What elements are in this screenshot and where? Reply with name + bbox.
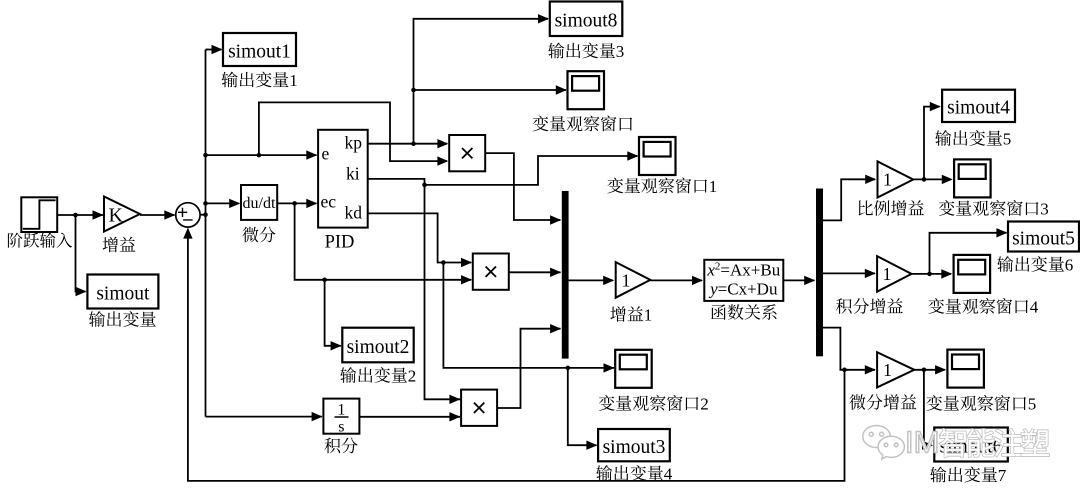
- simout3 block: [598, 429, 670, 461]
- wire branch to simout2: [325, 280, 341, 346]
- label output variable4: [596, 465, 673, 484]
- arrowhead into scope window1: [627, 151, 638, 160]
- junction simout2 branch: [322, 278, 327, 283]
- label variable window: [533, 116, 633, 132]
- label derivative gain: [850, 394, 917, 410]
- junction on step output: [73, 213, 78, 218]
- label gain: [103, 237, 136, 253]
- function block equations: [706, 261, 780, 299]
- proportional gain triangle: [878, 161, 914, 197]
- label integral: [325, 438, 358, 454]
- label variable window1: [607, 177, 717, 196]
- feedback wire to sum minus input: [188, 229, 845, 481]
- junction scope0 branch: [411, 88, 416, 93]
- arrowhead into du/dt: [229, 199, 240, 208]
- scope variable window1: [639, 137, 676, 175]
- arrowhead into I gain: [865, 269, 876, 278]
- wire mux output to gain1: [569, 279, 613, 281]
- arrowhead into multiply3 input2: [449, 412, 460, 421]
- wire e-line to PID input e: [206, 154, 317, 156]
- arrowhead into mux input1: [550, 215, 561, 224]
- junction simout3 branch: [566, 366, 571, 371]
- wire branch down to simout3: [568, 368, 597, 445]
- arrowhead into simout2: [331, 341, 342, 350]
- scope variable window4: [954, 255, 991, 293]
- svg-text:ec: ec: [321, 192, 337, 212]
- arrowhead into multiply2 input2: [461, 275, 472, 284]
- label gain1: [610, 306, 652, 325]
- arrowhead into scope window5: [935, 365, 946, 374]
- svg-text:1: 1: [644, 306, 653, 325]
- scope variable window: [568, 71, 605, 109]
- wire to integrator 1/s: [206, 416, 322, 418]
- arrowhead into multiply1 input1: [437, 139, 448, 148]
- arrowhead into simout6: [922, 441, 933, 450]
- sum junction circle: [176, 203, 200, 227]
- wire branch up to simout5: [930, 233, 1007, 274]
- arrowhead into sum: [164, 210, 175, 219]
- svg-text:1: 1: [709, 177, 718, 196]
- svg-text:1: 1: [337, 402, 345, 419]
- svg-text:simout1: simout1: [228, 41, 291, 62]
- wire multiply2 output to mux input2: [509, 271, 561, 273]
- wire multiply3 output to mux input3: [497, 329, 560, 408]
- wire demux out2 to I gain: [823, 272, 875, 274]
- wire PID ki to scope window1: [368, 156, 638, 185]
- arrowhead into multiply2 input1: [461, 258, 472, 267]
- arrowhead into simout5: [996, 228, 1007, 237]
- arrowhead up into sum: [183, 228, 192, 239]
- simout6 block: [934, 428, 1008, 462]
- arrowhead into mux input3: [550, 324, 561, 333]
- simout2 block: [342, 328, 413, 363]
- svg-text:e: e: [322, 144, 330, 164]
- wire branch down to simout6: [924, 370, 932, 445]
- label variable window2: [599, 395, 709, 414]
- label variable window5: [926, 395, 1036, 414]
- arrowhead into scope window: [556, 85, 567, 94]
- wire du/dt to PID input ec: [277, 202, 316, 204]
- wire gain1 to function block: [650, 279, 702, 281]
- label output variable2: [340, 367, 416, 386]
- label output variable7: [930, 466, 1007, 485]
- simout1 block: [223, 33, 296, 66]
- PID port labels: [321, 133, 363, 223]
- wire kp branch up to simout8: [414, 19, 549, 144]
- svg-text:y=Cx+Du: y=Cx+Du: [708, 280, 778, 299]
- junction feedback branch: [842, 368, 847, 373]
- svg-text:6: 6: [1065, 256, 1074, 275]
- svg-text:PID: PID: [325, 233, 355, 253]
- junction kp branch up: [411, 141, 416, 146]
- derivative du/dt block: [241, 185, 277, 220]
- simout4 block: [942, 90, 1015, 122]
- svg-text:7: 7: [998, 466, 1007, 485]
- label output variable1: [222, 71, 298, 90]
- wire gain K to sum: [140, 214, 175, 216]
- wire demux out3 to D gain: [823, 328, 875, 370]
- arrowhead into PID e: [306, 150, 317, 159]
- junction simout6 branch: [922, 368, 927, 373]
- arrowhead into scope window3: [942, 175, 953, 184]
- label proportional gain: [859, 200, 924, 216]
- arrowhead into scope window4: [941, 269, 952, 278]
- wire D gain to scope window5: [914, 369, 945, 371]
- wire sum output to node: [200, 214, 205, 216]
- integrator 1/s block: [323, 399, 359, 434]
- arrowhead into mux input2: [550, 268, 561, 277]
- wire e branch up-over to multiply1 input2: [259, 102, 447, 161]
- wire to du/dt: [206, 202, 240, 204]
- wire function block to demux: [783, 279, 814, 281]
- label step input: [8, 233, 72, 248]
- multiply block 3: [461, 390, 497, 426]
- svg-text:s: s: [338, 419, 344, 436]
- wire kd branch down to scope window2: [443, 263, 614, 368]
- label integral gain: [836, 298, 903, 314]
- integral gain triangle: [877, 256, 911, 292]
- svg-text:2: 2: [700, 395, 709, 414]
- step icon: [23, 200, 56, 229]
- arrowhead into simout3: [586, 441, 597, 450]
- step block: [21, 197, 57, 232]
- svg-text:simout5: simout5: [1012, 228, 1075, 249]
- svg-text:4: 4: [664, 465, 673, 484]
- svg-text:du/dt: du/dt: [243, 195, 276, 212]
- label variable window3: [939, 200, 1049, 219]
- demux bar: [816, 189, 823, 357]
- svg-text:IM: IM: [905, 425, 939, 460]
- wire ki branch down to multiply3 input1: [425, 185, 461, 399]
- PID fuzzy controller block: [318, 130, 368, 228]
- scope variable window3: [954, 159, 991, 197]
- integrator 1/s text: [335, 402, 349, 436]
- scope variable window2: [615, 350, 652, 388]
- svg-text:2: 2: [408, 367, 417, 386]
- wire demux out1 to P gain: [823, 179, 875, 220]
- label output variable: [89, 311, 156, 327]
- arrowhead into gain K: [93, 210, 104, 219]
- arrowhead into simout1: [212, 45, 223, 54]
- function block: [704, 260, 783, 301]
- junction kd branch down: [441, 260, 446, 265]
- derivative gain triangle: [877, 352, 914, 387]
- wire integrator output to multiply3 input2: [359, 416, 460, 418]
- svg-text:K: K: [109, 205, 124, 227]
- label derivative: [243, 227, 276, 243]
- svg-text:1: 1: [883, 264, 892, 284]
- junction du/dt tap: [203, 201, 208, 206]
- wire multiply1 output to mux input1: [485, 153, 560, 220]
- wire ec branch down to multiply2 input2: [295, 203, 472, 279]
- svg-text:simout: simout: [96, 283, 150, 304]
- svg-text:simout4: simout4: [947, 98, 1010, 119]
- mux bar: [562, 191, 569, 359]
- svg-text:3: 3: [1040, 200, 1049, 219]
- label output variable3: [548, 42, 624, 61]
- arrowhead into function block: [692, 276, 703, 285]
- svg-text:3: 3: [616, 42, 625, 61]
- gain K: [104, 197, 140, 232]
- svg-text:4: 4: [1030, 298, 1039, 317]
- arrowhead into simout: [76, 287, 87, 296]
- svg-text:simout3: simout3: [603, 437, 666, 458]
- arrowhead into P gain: [865, 175, 876, 184]
- svg-text:ki: ki: [346, 164, 360, 184]
- svg-text:1: 1: [883, 170, 892, 190]
- junction e branch: [257, 153, 262, 158]
- arrowhead into simout8: [538, 14, 549, 23]
- multiply block 2: [473, 254, 509, 290]
- junction ki branch down: [422, 183, 427, 188]
- wire main vertical trunk x205: [205, 50, 207, 417]
- junction e-line tap: [203, 153, 208, 158]
- gain1 triangle: [616, 262, 651, 298]
- label variable window4: [928, 298, 1038, 317]
- junction simout5 branch: [927, 272, 932, 277]
- wire branch up to simout4: [924, 107, 940, 180]
- arrowhead into PID ec: [306, 199, 317, 208]
- wire PID kd to multiply2 input1: [368, 213, 472, 262]
- simout block: [87, 275, 158, 309]
- arrowhead into D gain: [865, 365, 876, 374]
- label function relation: [711, 304, 776, 320]
- simout8 block: [550, 2, 623, 37]
- wire PID kp to multiply1 input1: [368, 143, 447, 145]
- watermark characters: [940, 429, 1049, 457]
- svg-text:kp: kp: [345, 133, 363, 153]
- arrowhead into integrator: [312, 412, 323, 421]
- svg-text:simout8: simout8: [555, 11, 618, 32]
- arrowhead into gain1: [603, 276, 614, 285]
- arrowhead into demux: [804, 276, 815, 285]
- label output variable5: [935, 130, 1011, 149]
- junction sum output: [203, 212, 208, 217]
- arrowhead into multiply1 input2: [437, 156, 448, 165]
- svg-text:1: 1: [289, 71, 298, 90]
- scope variable window5: [947, 350, 984, 388]
- watermark wechat logo: [863, 425, 905, 459]
- svg-text:1: 1: [883, 360, 892, 380]
- arrowhead into simout4: [930, 102, 941, 111]
- wire I gain to scope window4: [912, 273, 952, 275]
- wire branch to scope window: [414, 89, 567, 91]
- svg-text:kd: kd: [345, 203, 363, 223]
- label output variable6: [997, 256, 1073, 275]
- wire branch down to simout: [76, 215, 86, 292]
- wire step to gain K: [58, 214, 103, 216]
- svg-text:simout2: simout2: [347, 337, 410, 358]
- arrowhead into multiply3 input1: [449, 395, 460, 404]
- wire P gain to scope window3: [913, 178, 951, 180]
- simout5 block: [1008, 222, 1079, 252]
- wire to simout1: [206, 49, 222, 51]
- junction ec branch: [292, 201, 297, 206]
- svg-text:5: 5: [1003, 130, 1012, 149]
- svg-text:1: 1: [622, 271, 631, 291]
- junction simout4 branch: [922, 177, 927, 182]
- svg-text:5: 5: [1028, 395, 1037, 414]
- multiply block 1: [449, 135, 485, 171]
- arrowhead into scope window2: [604, 363, 615, 372]
